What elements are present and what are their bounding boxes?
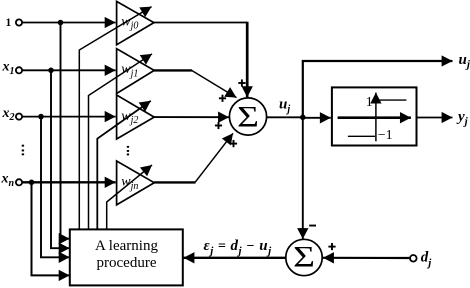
limiter upper step line xyxy=(378,99,407,101)
wire junction x1 down to learning box xyxy=(51,70,70,248)
limiter horizontal axis xyxy=(338,116,411,119)
hard limiter box xyxy=(332,87,417,145)
junction dot row x1 xyxy=(48,68,54,74)
plus sign w_j1 xyxy=(219,95,226,102)
wire down into summer xyxy=(246,22,249,98)
plus sign w_j2 xyxy=(215,122,222,129)
wire w_j1 diagonal into summer xyxy=(192,70,237,97)
svg-text:εj = dj − uj: εj = dj − uj xyxy=(204,238,273,257)
junction dot row xn xyxy=(29,180,35,186)
plus sign w_j0 xyxy=(238,79,245,86)
node xn input circle xyxy=(16,179,22,185)
summer U1 circle xyxy=(229,98,266,135)
amplifier w_j2 triangle xyxy=(117,95,155,139)
weight adjust arrow w_j2 xyxy=(97,101,151,230)
wire into hard limiter xyxy=(303,117,331,119)
node x2 input circle xyxy=(16,114,22,120)
wire row 1 to w_j0 xyxy=(23,22,116,24)
wire w_j0 output to summer top xyxy=(154,22,248,24)
node d_j input circle xyxy=(410,255,417,262)
amplifier w_jn triangle xyxy=(117,161,155,205)
error summer U2 circle xyxy=(286,239,322,275)
learning procedure box xyxy=(70,229,183,285)
limiter vertical axis xyxy=(375,93,377,142)
junction dot u_j xyxy=(300,115,306,121)
wire w_jn output xyxy=(154,181,196,183)
limiter lower step line xyxy=(348,135,375,137)
wire w_jn diagonal into summer xyxy=(195,133,233,182)
svg-text:1: 1 xyxy=(6,17,12,29)
weight adjust arrow w_j0 xyxy=(79,7,151,230)
wire row x1 to w_j1 xyxy=(23,69,116,71)
wire row xn to w_jn xyxy=(23,181,116,183)
junction dot row x2 xyxy=(38,114,44,120)
amplifier w_j0 triangle xyxy=(117,1,154,44)
amplifier w_j1 triangle xyxy=(117,49,155,94)
wire feedback down to error summer xyxy=(302,117,304,239)
svg-text:1: 1 xyxy=(366,95,373,110)
summer U1 sigma xyxy=(237,101,259,134)
svg-text:A learning: A learning xyxy=(95,238,158,254)
plus sign d_j xyxy=(328,243,335,250)
error summer sigma xyxy=(293,241,315,274)
wire junction 1 down to learning box xyxy=(61,23,70,239)
minus sign xyxy=(309,225,316,227)
vertical ellipsis between amplifiers xyxy=(127,146,129,156)
weight adjust arrow w_jn xyxy=(107,165,152,230)
svg-text:Σ: Σ xyxy=(237,101,259,134)
node 1 input circle xyxy=(16,19,22,25)
wire w_j2 output into summer xyxy=(154,116,229,118)
plus sign w_jn xyxy=(230,140,237,147)
wire junction x2 down to learning box xyxy=(41,117,70,258)
wire error to learning box xyxy=(184,257,286,259)
svg-text:Σ: Σ xyxy=(293,241,315,274)
wire y_j output xyxy=(417,117,453,119)
svg-text:−1: −1 xyxy=(378,128,393,143)
wire d_j into error summer xyxy=(323,257,410,259)
wire u_j branch to top output xyxy=(303,61,453,117)
vertical ellipsis left inputs xyxy=(22,145,24,156)
wire junction xn down to learning box xyxy=(32,182,70,275)
weight adjust arrow w_j1 xyxy=(89,54,153,230)
wire summer output u_j xyxy=(267,116,303,118)
junction dot row 1 xyxy=(58,20,64,26)
node x1 input circle xyxy=(16,67,22,73)
svg-text:procedure: procedure xyxy=(97,255,157,271)
wire w_j1 output xyxy=(154,69,192,71)
wire row x2 to w_j2 xyxy=(23,116,116,118)
